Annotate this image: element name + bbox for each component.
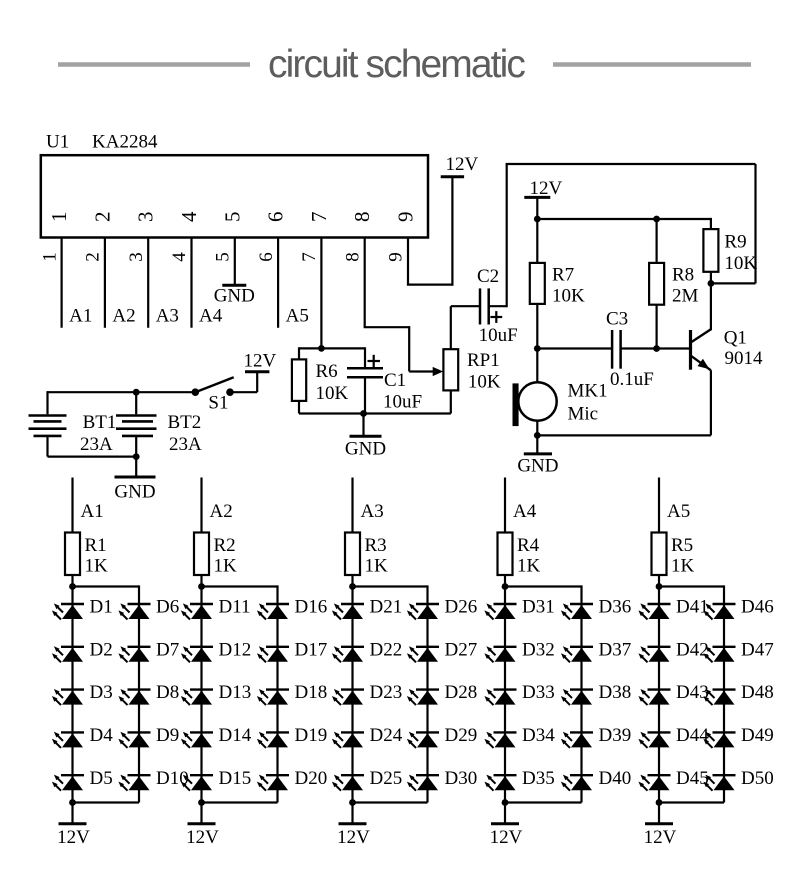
svg-text:GND: GND <box>517 456 558 477</box>
wire LED string D46-D50 <box>723 585 725 802</box>
wire LED group 1 bottom branch <box>73 801 140 803</box>
LED D1 <box>52 603 84 619</box>
svg-text:9: 9 <box>394 212 418 223</box>
LED D22 <box>332 646 364 662</box>
svg-text:10K: 10K <box>552 286 585 307</box>
wire LED string D16-D20 <box>276 585 278 802</box>
wire pin 5 to ground <box>234 238 236 285</box>
svg-text:1K: 1K <box>365 556 389 577</box>
wire LED group 2 top branch <box>202 585 278 587</box>
label R7 <box>552 264 574 285</box>
wire pin 9 up to 12V <box>451 177 453 286</box>
svg-text:BT1: BT1 <box>83 412 117 433</box>
wire A2 column stub <box>200 478 202 533</box>
wire LED string D6-D10 <box>138 585 140 802</box>
label RP1 value 10K <box>468 372 501 393</box>
svg-text:4: 4 <box>177 211 201 222</box>
svg-text:12V: 12V <box>446 154 479 175</box>
wire R3 to LEDs <box>351 575 353 587</box>
label D11 <box>219 597 251 618</box>
label R9 value 10K <box>724 253 757 274</box>
svg-text:C3: C3 <box>606 309 628 330</box>
svg-text:D8: D8 <box>156 682 179 703</box>
node LED group 3 bottom junction <box>349 799 356 806</box>
label Q1 <box>724 328 747 349</box>
LED D8 <box>118 689 150 705</box>
LED D46 <box>703 603 735 619</box>
LED D16 <box>257 603 289 619</box>
transistor Q1 collector <box>692 283 711 342</box>
label D4 <box>90 725 114 746</box>
svg-text:23A: 23A <box>80 434 113 455</box>
svg-text:D3: D3 <box>90 682 113 703</box>
wire R9 top lead <box>710 218 712 229</box>
label R1 <box>85 535 107 556</box>
wire R7 top lead <box>536 219 538 263</box>
LED D26 <box>407 603 439 619</box>
node A4 (column label) <box>513 501 537 522</box>
label Mic <box>568 404 599 425</box>
svg-text:8: 8 <box>350 212 374 223</box>
LED D40 <box>561 775 593 791</box>
wire mic top lead <box>536 349 538 383</box>
LED D7 <box>118 646 150 662</box>
label BT2 value 23A <box>169 434 202 455</box>
wire pin 9 vertical <box>407 238 409 285</box>
svg-text:8: 8 <box>342 252 363 262</box>
node A1 (pin stub label) <box>69 306 92 327</box>
label D14 <box>219 725 252 746</box>
svg-text:12V: 12V <box>530 178 563 199</box>
label R5 <box>671 535 693 556</box>
wire top loop <box>506 164 756 283</box>
LED D15 <box>181 775 213 791</box>
title rule right <box>553 62 751 67</box>
LED D13 <box>181 689 213 705</box>
LED D49 <box>703 732 735 748</box>
label D35 <box>522 768 555 789</box>
label R3 value 1K <box>365 556 389 577</box>
pin number 1 below U1 <box>39 252 60 262</box>
label 12V group 5 <box>644 827 677 848</box>
wire mic to ground <box>536 435 538 452</box>
pin number 6 below U1 <box>256 252 277 262</box>
resistor R3 <box>345 533 360 576</box>
label R8 <box>672 264 694 285</box>
label R8 value 2M <box>672 286 699 307</box>
label R5 value 1K <box>671 556 695 577</box>
wire A4 column stub <box>504 478 506 533</box>
svg-text:BT2: BT2 <box>168 412 202 433</box>
svg-text:R4: R4 <box>517 535 540 556</box>
svg-text:10uF: 10uF <box>383 392 422 413</box>
wire LED string D31-D35 <box>504 587 506 803</box>
svg-text:1K: 1K <box>517 556 541 577</box>
svg-text:C1: C1 <box>384 370 406 391</box>
label R1 value 1K <box>85 556 109 577</box>
svg-text:A4: A4 <box>513 501 537 522</box>
svg-text:2M: 2M <box>672 286 699 307</box>
label R4 <box>517 535 540 556</box>
wire pin 1 stub <box>60 238 62 328</box>
ground mic <box>517 454 558 477</box>
svg-text:D5: D5 <box>90 768 113 789</box>
LED D21 <box>332 603 364 619</box>
LED D17 <box>257 646 289 662</box>
svg-text:D18: D18 <box>295 682 328 703</box>
label D42 <box>676 639 709 660</box>
LED D20 <box>257 775 289 791</box>
wire R9 bottom lead <box>710 272 712 284</box>
label D21 <box>370 597 403 618</box>
label D28 <box>445 682 478 703</box>
svg-text:6: 6 <box>256 252 277 262</box>
capacitor C1 <box>347 368 383 377</box>
svg-text:D19: D19 <box>295 725 328 746</box>
node A2 (column label) <box>210 501 233 522</box>
pin number 9 below U1 <box>386 252 407 262</box>
label BT1 value 23A <box>80 434 113 455</box>
wire LED group 5 bottom branch <box>659 801 724 803</box>
node A2 (pin stub label) <box>112 306 135 327</box>
op-amp U1 KA2284 body <box>41 155 428 237</box>
label R2 <box>214 535 236 556</box>
wire BT2 negative lead <box>135 437 137 457</box>
LED D32 <box>484 646 516 662</box>
wire bottom rail R6-RP1 <box>299 412 451 414</box>
LED D19 <box>257 732 289 748</box>
svg-text:GND: GND <box>345 439 386 460</box>
svg-text:D6: D6 <box>156 597 179 618</box>
svg-text:D47: D47 <box>741 639 774 660</box>
svg-text:Q1: Q1 <box>724 328 747 349</box>
switch S1 blade <box>195 377 233 392</box>
label D25 <box>370 768 403 789</box>
label D9 <box>156 725 179 746</box>
svg-text:D23: D23 <box>370 682 403 703</box>
label D13 <box>219 682 252 703</box>
resistor R7 <box>530 263 545 304</box>
label D8 <box>156 682 179 703</box>
svg-text:D45: D45 <box>676 768 709 789</box>
wire R6 bottom lead <box>298 401 300 414</box>
LED D43 <box>638 689 670 705</box>
LED D24 <box>332 732 364 748</box>
svg-text:GND: GND <box>114 482 155 503</box>
label D33 <box>522 682 555 703</box>
svg-text:2: 2 <box>90 212 114 223</box>
wire LED group 3 bottom branch <box>353 801 428 803</box>
svg-text:D26: D26 <box>445 597 478 618</box>
label D2 <box>90 639 113 660</box>
svg-text:9: 9 <box>386 252 407 262</box>
wire RP1 wiper <box>409 367 443 376</box>
label Q1 value 9014 <box>725 348 764 369</box>
power 12V mic section <box>524 196 550 199</box>
pin number 4 below U1 <box>169 252 190 262</box>
label BT1 <box>83 412 117 433</box>
capacitor C2 <box>480 288 489 324</box>
wire to 12V group 5 <box>658 803 660 824</box>
LED D36 <box>561 603 593 619</box>
wire LED string D36-D40 <box>580 585 582 802</box>
ground at pin 5 <box>214 285 255 306</box>
label D15 <box>219 768 252 789</box>
battery BT2 <box>116 416 157 436</box>
pin number 7 inside U1 <box>307 212 331 223</box>
wire A1 column stub <box>71 478 73 533</box>
svg-text:D50: D50 <box>741 768 774 789</box>
node LED group 3 top junction <box>349 583 356 590</box>
label D37 <box>599 639 632 660</box>
LED D42 <box>638 646 670 662</box>
wire base left <box>537 347 612 349</box>
pin number 8 inside U1 <box>350 212 374 223</box>
pin number 3 inside U1 <box>134 212 158 223</box>
wire to battery ground <box>135 457 137 476</box>
label D18 <box>295 682 328 703</box>
label BT2 <box>168 412 202 433</box>
svg-text:D31: D31 <box>522 597 555 618</box>
wire to 12V group 3 <box>351 803 353 824</box>
LED D28 <box>407 689 439 705</box>
LED D3 <box>52 689 84 705</box>
label MK1 <box>568 381 608 402</box>
svg-text:12V: 12V <box>244 351 277 372</box>
label D10 <box>156 768 189 789</box>
label D39 <box>599 725 632 746</box>
LED D30 <box>407 775 439 791</box>
svg-text:D7: D7 <box>156 639 179 660</box>
svg-text:Mic: Mic <box>568 404 599 425</box>
LED D6 <box>118 603 150 619</box>
svg-text:1: 1 <box>47 212 71 223</box>
wire BT2 positive lead <box>135 392 137 414</box>
label D43 <box>676 682 709 703</box>
svg-text:C2: C2 <box>477 266 499 287</box>
svg-text:5: 5 <box>220 212 244 223</box>
wire LED group 5 top branch <box>659 585 724 587</box>
label C3 value 0.1uF <box>610 369 654 390</box>
LED D18 <box>257 689 289 705</box>
wire supply rail <box>537 218 711 220</box>
node LED group 5 bottom junction <box>656 799 663 806</box>
svg-text:D27: D27 <box>445 639 478 660</box>
svg-text:10uF: 10uF <box>479 325 518 346</box>
label D24 <box>370 725 403 746</box>
LED D35 <box>484 775 516 791</box>
label R6 value 10K <box>316 383 349 404</box>
label D6 <box>156 597 179 618</box>
svg-text:12V: 12V <box>644 827 677 848</box>
wire LED string D41-D45 <box>658 587 660 803</box>
wire LED group 4 top branch <box>505 585 582 587</box>
label D50 <box>741 768 774 789</box>
LED D23 <box>332 689 364 705</box>
power 12V at pin 9 <box>441 175 464 178</box>
svg-text:R1: R1 <box>85 535 107 556</box>
wire LED string D11-D15 <box>200 587 202 803</box>
wire R6 C1 top <box>299 347 365 349</box>
label D19 <box>295 725 328 746</box>
svg-text:D29: D29 <box>445 725 478 746</box>
label KA2284 <box>92 132 158 153</box>
svg-text:2: 2 <box>83 252 104 262</box>
node R7 mic C3 junction <box>534 345 541 352</box>
wire battery top rail <box>48 391 196 393</box>
label R2 value 1K <box>214 556 238 577</box>
pin number 6 inside U1 <box>264 212 288 223</box>
label D3 <box>90 682 113 703</box>
svg-text:D28: D28 <box>445 682 478 703</box>
label 12V group 2 <box>186 827 219 848</box>
label D36 <box>599 597 632 618</box>
node LED group 2 top junction <box>198 583 205 590</box>
svg-text:5: 5 <box>213 252 234 262</box>
node LED group 2 bottom junction <box>198 799 205 806</box>
label D46 <box>741 597 774 618</box>
svg-text:D37: D37 <box>599 639 632 660</box>
svg-text:D35: D35 <box>522 768 555 789</box>
wire BT1 negative lead <box>46 437 48 457</box>
LED D2 <box>52 646 84 662</box>
title text <box>268 43 525 86</box>
wire C2 to top loop <box>489 164 507 307</box>
wire R1 to LEDs <box>71 575 73 587</box>
svg-text:R8: R8 <box>672 264 694 285</box>
wire to ground R6C1 <box>362 414 364 436</box>
power 12V group 4 <box>491 822 519 825</box>
label D31 <box>522 597 555 618</box>
svg-text:7: 7 <box>299 252 320 262</box>
label D5 <box>90 768 113 789</box>
wire pin 2 stub <box>104 238 106 328</box>
title rule left <box>58 62 250 67</box>
wire R8 top lead <box>655 219 657 263</box>
LED D41 <box>638 603 670 619</box>
label D34 <box>522 725 555 746</box>
node LED group 5 top junction <box>656 583 663 590</box>
svg-text:12V: 12V <box>490 827 523 848</box>
svg-text:D9: D9 <box>156 725 179 746</box>
svg-text:D41: D41 <box>676 597 709 618</box>
wire pin 8 down <box>408 326 410 371</box>
wire R2 to LEDs <box>200 575 202 587</box>
wire RP1 bottom lead <box>450 390 452 413</box>
label R3 <box>365 535 387 556</box>
switch S1 left contact <box>192 388 200 396</box>
svg-text:D25: D25 <box>370 768 403 789</box>
label D45 <box>676 768 709 789</box>
wire LED string D21-D25 <box>351 587 353 803</box>
svg-text:12V: 12V <box>337 827 370 848</box>
wire to 12V group 4 <box>504 803 506 824</box>
svg-text:R7: R7 <box>552 264 574 285</box>
LED D11 <box>181 603 213 619</box>
wire to 12V group 2 <box>200 803 202 824</box>
label 12V group 1 <box>57 827 90 848</box>
node A1 (column label) <box>81 501 104 522</box>
resistor R5 <box>652 533 667 576</box>
svg-text:0.1uF: 0.1uF <box>610 369 654 390</box>
LED D33 <box>484 689 516 705</box>
wire base right <box>621 347 690 349</box>
node C3 R8 junction <box>653 345 660 352</box>
wire LED group 3 top branch <box>353 585 428 587</box>
label C1 <box>384 370 406 391</box>
svg-text:A2: A2 <box>112 306 135 327</box>
wire pin 4 stub <box>190 238 192 328</box>
svg-text:3: 3 <box>126 252 147 262</box>
svg-text:10K: 10K <box>724 253 757 274</box>
svg-text:D4: D4 <box>90 725 114 746</box>
node R9 collector junction <box>708 280 715 287</box>
svg-text:9014: 9014 <box>725 348 764 369</box>
wire RP1 top lead <box>451 306 480 349</box>
wire A5 column stub <box>658 478 660 533</box>
power 12V group 5 <box>645 822 673 825</box>
LED D29 <box>407 732 439 748</box>
label D44 <box>676 725 709 746</box>
svg-text:D24: D24 <box>370 725 403 746</box>
transistor Q1 emitter <box>692 356 711 370</box>
svg-text:A5: A5 <box>286 306 309 327</box>
svg-text:R5: R5 <box>671 535 693 556</box>
pin number 4 inside U1 <box>177 211 201 222</box>
LED D45 <box>638 775 670 791</box>
resistor R1 <box>65 533 80 576</box>
node rail R8 junction <box>653 216 660 223</box>
svg-text:A3: A3 <box>361 501 384 522</box>
svg-text:D36: D36 <box>599 597 632 618</box>
svg-text:10K: 10K <box>468 372 501 393</box>
label D17 <box>295 639 328 660</box>
node battery bottom junction <box>133 453 140 460</box>
wire LED string D1-D5 <box>71 587 73 803</box>
svg-text:D17: D17 <box>295 639 328 660</box>
label 12V group 3 <box>337 827 370 848</box>
capacitor C3 <box>612 330 621 369</box>
svg-text:R6: R6 <box>316 361 338 382</box>
wire R8 bottom lead <box>655 305 657 349</box>
svg-text:D39: D39 <box>599 725 632 746</box>
label 12V mic section <box>530 178 563 199</box>
label S1 <box>208 393 228 414</box>
label R7 value 10K <box>552 286 585 307</box>
svg-text:D30: D30 <box>445 768 478 789</box>
svg-text:circuit schematic: circuit schematic <box>268 43 525 86</box>
label 12V at switch <box>244 351 277 372</box>
wire LED group 2 bottom branch <box>202 801 278 803</box>
resistor R8 <box>649 263 664 305</box>
label U1 <box>46 132 69 153</box>
wire pin 9 horizontal <box>407 284 453 286</box>
svg-text:D38: D38 <box>599 682 632 703</box>
svg-text:GND: GND <box>214 286 255 307</box>
wire BT1 positive lead <box>46 391 48 414</box>
svg-text:D43: D43 <box>676 682 709 703</box>
svg-text:KA2284: KA2284 <box>92 132 158 153</box>
node A3 (column label) <box>361 501 384 522</box>
node LED group 4 bottom junction <box>502 799 509 806</box>
LED D47 <box>703 646 735 662</box>
svg-text:RP1: RP1 <box>467 350 500 371</box>
svg-text:6: 6 <box>264 212 288 223</box>
label 12V at pin 9 <box>446 154 479 175</box>
label D38 <box>599 682 632 703</box>
pin number 2 inside U1 <box>90 212 114 223</box>
svg-text:D33: D33 <box>522 682 555 703</box>
